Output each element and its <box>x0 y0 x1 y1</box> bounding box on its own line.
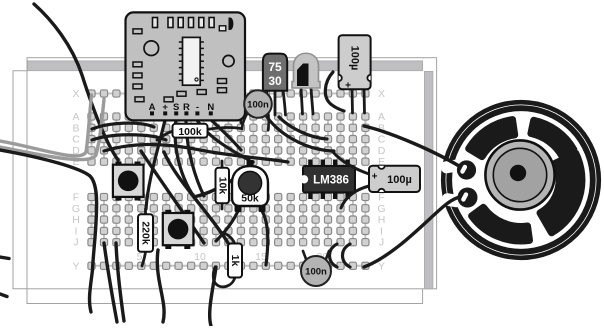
jumper B1 to B6 <box>92 123 154 129</box>
speaker LS1 outer rings <box>443 102 599 258</box>
capacitor C4 100u wires <box>333 152 369 208</box>
resistor R1 100k leads <box>157 127 241 140</box>
svg-text:Y: Y <box>72 260 79 272</box>
svg-text:Y: Y <box>378 260 385 272</box>
svg-text:G: G <box>377 203 385 215</box>
wire from button S2 hanging down <box>157 250 164 322</box>
resistor R3 10k body <box>216 168 230 204</box>
svg-text:H: H <box>378 214 386 226</box>
svg-text:X: X <box>378 88 385 100</box>
capacitor C2 100n body <box>301 256 331 286</box>
black wire from left edge down column 1 <box>0 150 97 312</box>
svg-text:N: N <box>207 102 214 113</box>
capacitor C3 100u body <box>335 35 373 91</box>
svg-text:1k: 1k <box>229 255 241 267</box>
speaker LS1 basket <box>469 120 582 241</box>
wire Y10 hanging down <box>210 267 216 326</box>
capacitor C3 100u legs <box>352 89 365 113</box>
speaker terminal rim notches <box>440 159 463 208</box>
LED D1 legs <box>301 88 313 114</box>
capacitor C4 100u body <box>369 163 420 196</box>
breadboard right edge bar <box>424 71 433 288</box>
capacitor C2 100n legs <box>303 251 329 259</box>
transistor Q1 legs <box>265 90 286 115</box>
svg-text:30: 30 <box>268 74 282 88</box>
grey wire X1 to left edge <box>0 95 92 156</box>
op-amp U2 LM386 pins <box>308 160 350 200</box>
hook wire near capacitor C3 <box>325 72 344 111</box>
svg-text:100n: 100n <box>305 267 327 278</box>
breadboard top edge bar <box>28 61 423 71</box>
jumper J20 to Y20 <box>330 244 338 267</box>
svg-text:50k: 50k <box>241 193 259 205</box>
LED D1 body <box>292 53 320 88</box>
recorder module U1 body <box>126 12 246 120</box>
svg-text:75: 75 <box>268 60 282 74</box>
resistor R1 100k body <box>173 124 208 138</box>
wire stub left edge bottom <box>0 294 7 297</box>
wire stub left edge mid <box>0 257 9 259</box>
base plate <box>13 71 423 304</box>
wire X13 to B13 <box>239 96 243 123</box>
svg-text:C: C <box>72 134 80 146</box>
op-amp U2 LM386 body <box>300 166 355 193</box>
grey wire X2 to left edge <box>0 99 104 160</box>
wire pad - to pot tab <box>197 120 249 160</box>
svg-text:C: C <box>378 134 386 146</box>
resistor R4 1k body <box>228 244 242 278</box>
svg-text:F: F <box>73 192 79 204</box>
resistor R2 220k body <box>138 214 153 252</box>
svg-text:+: + <box>372 172 378 183</box>
jumper E14 to F9 <box>194 162 253 197</box>
svg-text:100k: 100k <box>178 126 202 138</box>
wire A16 to C20 <box>279 117 327 139</box>
push button S2 <box>163 210 194 249</box>
speaker terminal lower <box>458 188 478 208</box>
jumper D7 to J12 <box>164 152 228 243</box>
wire J2 hanging down <box>104 243 117 322</box>
transistor Q1 7530 body <box>263 54 287 91</box>
jumper J21 to Y21 <box>343 244 351 267</box>
svg-text:A: A <box>149 102 156 113</box>
capacitor C1 100n legs <box>242 112 269 130</box>
speaker wire to hole B22 <box>364 126 464 169</box>
svg-text:B: B <box>72 122 79 134</box>
svg-text:+: + <box>162 102 168 113</box>
svg-text:R: R <box>183 102 190 113</box>
speaker terminal upper <box>457 160 476 179</box>
wire pad + to 220k top <box>146 120 165 209</box>
svg-text:10k: 10k <box>216 177 228 195</box>
speaker LS1 cone <box>485 140 554 209</box>
jumper D5 to J10 <box>141 151 204 243</box>
svg-text:+: + <box>345 81 351 92</box>
svg-text:I: I <box>380 225 383 237</box>
jumper C1 to C7 <box>92 135 166 140</box>
svg-text:G: G <box>72 203 80 215</box>
svg-text:100n: 100n <box>247 100 269 111</box>
svg-text:X: X <box>72 88 79 100</box>
svg-text:A: A <box>378 111 385 123</box>
jumper D2 to E17 <box>104 144 288 162</box>
resistor R4 1k leads <box>213 232 235 287</box>
breadboard body <box>27 58 437 289</box>
trimmer P1 50k body <box>232 160 268 212</box>
speaker wire to hole Y23 <box>364 197 467 267</box>
wire pad N to hole D13 <box>211 120 241 150</box>
svg-text:100µ: 100µ <box>387 174 412 186</box>
svg-text:5: 5 <box>137 251 143 263</box>
capacitor C1 100n body <box>244 90 272 118</box>
svg-text:100µ: 100µ <box>349 46 361 71</box>
resistor R2 220k leads <box>142 209 146 266</box>
breadboard contact strips <box>92 94 366 266</box>
wire A15 to D20 <box>267 117 334 151</box>
wire J3 hanging down <box>116 243 124 321</box>
push button S1 <box>113 162 144 201</box>
svg-text:LM386: LM386 <box>313 175 349 187</box>
wire from top left to button S1 <box>34 4 118 160</box>
svg-text:S: S <box>173 102 179 113</box>
svg-text:J: J <box>73 237 78 249</box>
wire pad R to hole F10 <box>186 120 204 196</box>
svg-text:10: 10 <box>194 251 206 263</box>
svg-text:-: - <box>196 102 199 113</box>
svg-text:F: F <box>378 192 384 204</box>
svg-text:220k: 220k <box>140 221 152 245</box>
svg-text:H: H <box>72 214 80 226</box>
svg-text:D: D <box>378 145 386 157</box>
wire pad S to hole G10 <box>175 120 202 207</box>
row labels <box>72 88 386 272</box>
svg-text:A: A <box>72 111 79 123</box>
trimmer P1 50k wires <box>216 211 268 265</box>
breadboard holes <box>88 90 369 270</box>
resistor R3 10k leads <box>221 161 224 209</box>
svg-text:I: I <box>75 225 78 237</box>
svg-text:J: J <box>379 237 384 249</box>
